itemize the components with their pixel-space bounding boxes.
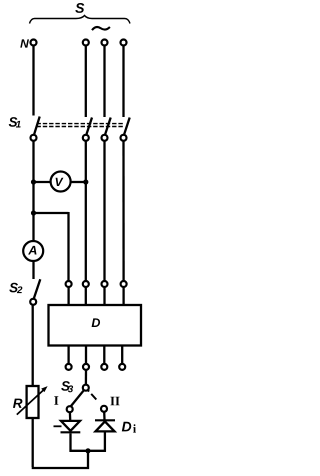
D box bottom terminal 3	[101, 364, 107, 370]
switch S1 pole 1 contact	[31, 135, 37, 141]
label N	[20, 39, 29, 47]
switch S1 pole 2 blade	[86, 118, 92, 135]
S3 position II contact	[101, 406, 107, 412]
right diode wire down	[104, 431, 106, 451]
wire L3 S1 to D terminal	[122, 141, 124, 281]
D box bottom terminal 2	[83, 364, 89, 370]
wire stub terminal 3 into box	[103, 287, 105, 305]
label S	[75, 3, 84, 13]
S3 position I contact	[67, 406, 73, 412]
right diode triangle	[96, 421, 115, 431]
wire stub box bottom to terminal 3	[103, 346, 105, 364]
wire S2 to rheostat	[32, 305, 34, 386]
wire L3 terminal to S1	[122, 46, 124, 117]
wire rheostat to bottom	[32, 418, 34, 467]
wire L1 S1 to D terminal	[85, 141, 87, 281]
junction dot L1 voltmeter	[83, 179, 88, 184]
terminal N	[31, 40, 37, 46]
rheostat arrow	[17, 389, 45, 415]
switch S2 blade	[34, 279, 41, 299]
selector S3 pivot	[83, 385, 89, 391]
D box terminal 2 top circle	[83, 281, 89, 287]
wire voltmeter left	[34, 181, 52, 183]
switch S1 pole 3 contact	[102, 135, 108, 141]
brace over supply S	[30, 16, 131, 24]
wire ammeter to S2	[32, 261, 34, 279]
label S1	[9, 117, 18, 127]
wire stub terminal 2 into box	[85, 287, 87, 305]
D box terminal 1 top circle	[66, 281, 72, 287]
D box bottom terminal 1	[66, 364, 72, 370]
wire diode common horizontal	[70, 450, 106, 452]
label S3	[61, 381, 70, 391]
S3 blade to position II dashed	[88, 390, 102, 405]
wire terminal 2 to S3 pivot	[85, 370, 87, 384]
D box bottom terminal 4	[119, 364, 125, 370]
junction dot N voltmeter	[31, 179, 36, 184]
D box terminal 4 top circle	[121, 281, 127, 287]
junction dot N branch	[31, 210, 36, 215]
wire bottom horizontal	[32, 451, 88, 468]
terminal L1	[83, 40, 89, 46]
switch S1 pole 3 blade	[105, 118, 111, 135]
ammeter A	[23, 241, 43, 261]
voltmeter V	[51, 172, 71, 192]
left valve wire down	[69, 433, 71, 451]
wire L1 terminal to S1	[85, 46, 87, 117]
wire stub box bottom to terminal 2	[85, 346, 87, 364]
switch S1 pole 1 blade	[34, 117, 40, 135]
switch S1 pole 4 blade	[124, 118, 130, 135]
switch S1 pole 2 contact	[83, 135, 89, 141]
S1 mechanical link dashed line lower	[37, 126, 125, 128]
device box D	[49, 305, 142, 346]
label D	[92, 318, 100, 327]
wire N S1 to ammeter	[32, 141, 34, 241]
wire stub terminal 1 into box	[67, 287, 69, 305]
switch S1 pole 4 contact	[121, 135, 127, 141]
wire stub box bottom to terminal 4	[121, 346, 123, 364]
wire L2 S1 to D terminal	[103, 141, 105, 281]
label I	[54, 396, 58, 405]
label R	[13, 399, 22, 408]
wire voltmeter right	[70, 181, 86, 183]
S1 mechanical link dashed line upper	[37, 123, 125, 125]
left valve cathode bar	[61, 431, 81, 433]
rheostat R body	[27, 386, 39, 418]
junction dot diode common	[85, 448, 90, 453]
wire stub box bottom to terminal 1	[67, 346, 69, 364]
right diode: wire II contact to cathode	[103, 412, 106, 419]
terminal L2	[102, 40, 108, 46]
S3 blade to position I solid	[71, 390, 84, 406]
left valve gate tick	[54, 425, 62, 427]
right diode cathode bar	[95, 419, 115, 421]
wire stub terminal 4 into box	[122, 287, 124, 305]
D box terminal 3 top circle	[102, 281, 108, 287]
label S2	[9, 283, 18, 293]
wire L2 terminal to S1	[103, 46, 105, 117]
left valve: wire I contact to anode	[69, 413, 72, 421]
left valve triangle	[61, 421, 80, 431]
switch S2 contact	[30, 299, 36, 305]
label Di	[122, 422, 131, 432]
wire N terminal to S1	[32, 46, 34, 116]
label II	[110, 397, 114, 406]
ac tilde	[92, 27, 110, 30]
wire N branch horizontal	[34, 212, 69, 214]
terminal L3	[121, 40, 127, 46]
wire N branch vertical to D terminal	[67, 212, 69, 281]
